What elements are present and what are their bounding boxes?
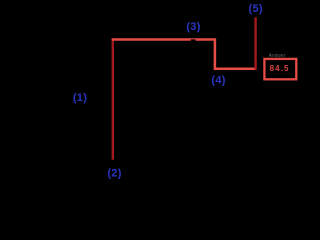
svg-text:(4): (4) <box>211 75 225 87</box>
svg-text:(5): (5) <box>249 3 263 15</box>
svg-text:84.5: 84.5 <box>270 64 290 73</box>
svg-text:(1): (1) <box>73 92 87 104</box>
notch on wire (3) <box>191 39 196 41</box>
wire W1 vertical (1)-(2) <box>112 38 114 159</box>
svg-text:(3): (3) <box>186 21 200 33</box>
svg-text:(2): (2) <box>107 167 121 179</box>
wire W5 vertical to (5) <box>254 17 256 69</box>
readout box <box>264 59 296 79</box>
wire W3 bright path (3)-(4) <box>112 40 257 69</box>
